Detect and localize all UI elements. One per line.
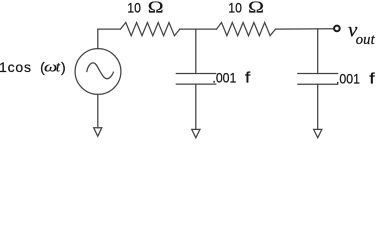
- resistor R1 (10 ohm): [120, 23, 179, 36]
- ground (C1): [192, 129, 200, 137]
- voltage source V1: 1 cos(wt): [75, 49, 121, 95]
- svg-text:Ω: Ω: [148, 0, 164, 17]
- capacitor C2 bottom plate: [298, 83, 338, 85]
- svg-text:): ): [61, 59, 66, 75]
- wire: node B down to C2: [317, 29, 319, 74]
- capacitor C1 bottom plate: [176, 83, 215, 85]
- svg-text:.001: .001: [212, 70, 236, 86]
- svg-text:out: out: [356, 32, 376, 48]
- svg-text:f: f: [245, 69, 251, 86]
- wire: R2 to output terminal through node B: [276, 28, 334, 30]
- sine wave inside source: [87, 63, 114, 79]
- wire: C2 to ground: [317, 84, 319, 129]
- capacitor C2 (.001 f) top plate: [298, 73, 338, 75]
- wire: source top stem and corner to R1: [98, 29, 121, 49]
- wire: source bottom to ground: [97, 94, 99, 127]
- svg-text:f: f: [369, 70, 375, 87]
- output terminal (open circle) node vout: [334, 26, 340, 32]
- svg-text:1cos: 1cos: [0, 59, 32, 75]
- ground (source): [94, 128, 102, 137]
- svg-text:.001: .001: [336, 71, 360, 87]
- resistor R2 (10 ohm): [217, 23, 276, 36]
- capacitor C1 (.001 f) top plate: [176, 72, 215, 74]
- svg-text:Ω: Ω: [248, 0, 264, 17]
- wire: R1 to R2 through node A: [180, 28, 217, 30]
- wire: node A down to C1: [195, 29, 197, 73]
- ground (C2): [314, 129, 322, 137]
- svg-text:10: 10: [127, 0, 141, 16]
- svg-text:10: 10: [228, 0, 242, 16]
- wire: C1 to ground: [195, 84, 197, 129]
